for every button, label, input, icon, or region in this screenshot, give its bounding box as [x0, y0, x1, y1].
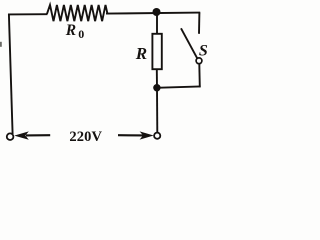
arrow : pointing left at left terminal: [26, 134, 50, 136]
resistor R0 : zigzag element: [47, 5, 107, 21]
wire : below switch down to bottom rail: [198, 64, 201, 88]
terminal : right open circle: [154, 133, 160, 139]
wire : bottom connector from switch branch to junction: [156, 86, 201, 87]
wire : bottom middle vertical to terminal: [156, 88, 158, 133]
svg-text:220V: 220V: [69, 129, 102, 145]
svg-text:S: S: [199, 42, 208, 59]
wire : left vertical conductor: [9, 14, 13, 134]
svg-text:R: R: [65, 22, 76, 39]
junction dot : top node: [153, 8, 161, 16]
terminal : left open circle: [7, 133, 14, 140]
svg-text:0: 0: [78, 27, 84, 41]
resistor R : box element: [152, 34, 161, 69]
wire : right vertical, from top corner down to switch: [198, 12, 200, 34]
switch S : contact circle: [196, 58, 202, 64]
switch S : blade: [181, 28, 197, 58]
svg-text:R: R: [135, 44, 147, 63]
junction dot : bottom node: [153, 84, 160, 91]
scan speck at left edge: [0, 42, 2, 47]
wire : from top junction down to resistor R: [156, 13, 158, 35]
wire : top horizontal, left segment: [8, 13, 48, 15]
arrow : pointing right at bottom terminal: [118, 134, 146, 136]
wire : from resistor R down to bottom junction: [156, 69, 158, 88]
wire : top horizontal, right segment: [106, 13, 200, 14]
